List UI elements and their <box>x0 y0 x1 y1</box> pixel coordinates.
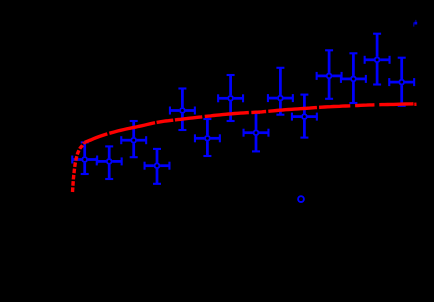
data point 2 with error bars <box>97 146 122 179</box>
data point 11 with error bars <box>317 50 342 99</box>
legend marker open circle <box>298 196 304 202</box>
data point 5 with error bars <box>170 89 195 131</box>
fit curve final dash fragment <box>414 102 416 106</box>
data point 3 with error bars <box>121 121 146 157</box>
fit curve flat segment (red dashed) <box>85 104 414 143</box>
data point 9 with error bars <box>268 68 293 115</box>
data point 4 with error bars <box>145 149 170 184</box>
data point 13 with error bars <box>365 34 390 85</box>
data point 14 with error bars <box>389 58 414 106</box>
fit curve steep segment (red dashed) <box>73 143 85 193</box>
data point 8 with error bars <box>244 113 269 151</box>
data point 1 with error bars <box>72 142 97 174</box>
data point 10 with error bars <box>292 95 317 138</box>
data point 6 with error bars <box>195 119 220 156</box>
data point 7 with error bars <box>218 75 243 121</box>
small legend data marker top right <box>413 20 417 27</box>
data point 12 with error bars <box>341 53 366 103</box>
